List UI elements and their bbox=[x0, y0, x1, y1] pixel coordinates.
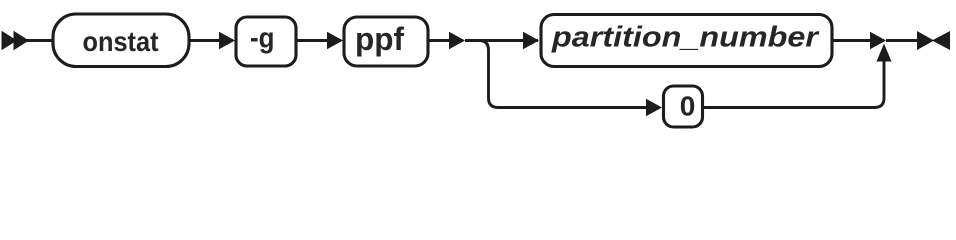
svg-text:ppf: ppf bbox=[355, 21, 404, 57]
wire main line through branch bbox=[465, 39, 538, 42]
start symbol bbox=[2, 31, 30, 50]
arrowhead bbox=[219, 32, 235, 50]
wire after partition box bbox=[832, 39, 884, 42]
arrowhead bbox=[449, 32, 465, 50]
svg-text:0: 0 bbox=[680, 91, 696, 122]
end symbol bbox=[917, 31, 950, 50]
arrowhead up bbox=[877, 44, 892, 62]
keyword box ppf bbox=[344, 17, 428, 66]
keyword box onstat bbox=[53, 14, 189, 67]
svg-text:partition_number: partition_number bbox=[551, 22, 820, 54]
arrowhead bbox=[523, 32, 539, 50]
wire bbox=[296, 39, 341, 42]
arrowhead bbox=[870, 32, 886, 50]
keyword box 0 bbox=[664, 86, 703, 127]
variable box partition_number bbox=[541, 15, 832, 67]
keyword box -g bbox=[236, 17, 296, 66]
arrowhead bbox=[646, 99, 662, 117]
wire branch down bbox=[479, 41, 646, 108]
wire to end bbox=[886, 39, 918, 42]
wire bbox=[189, 39, 233, 42]
wire bbox=[26, 39, 54, 42]
wire bbox=[428, 39, 463, 42]
svg-text:onstat: onstat bbox=[83, 26, 159, 57]
wire bottom right up bbox=[703, 60, 884, 108]
svg-text:-g: -g bbox=[250, 23, 275, 55]
arrowhead bbox=[327, 32, 343, 50]
